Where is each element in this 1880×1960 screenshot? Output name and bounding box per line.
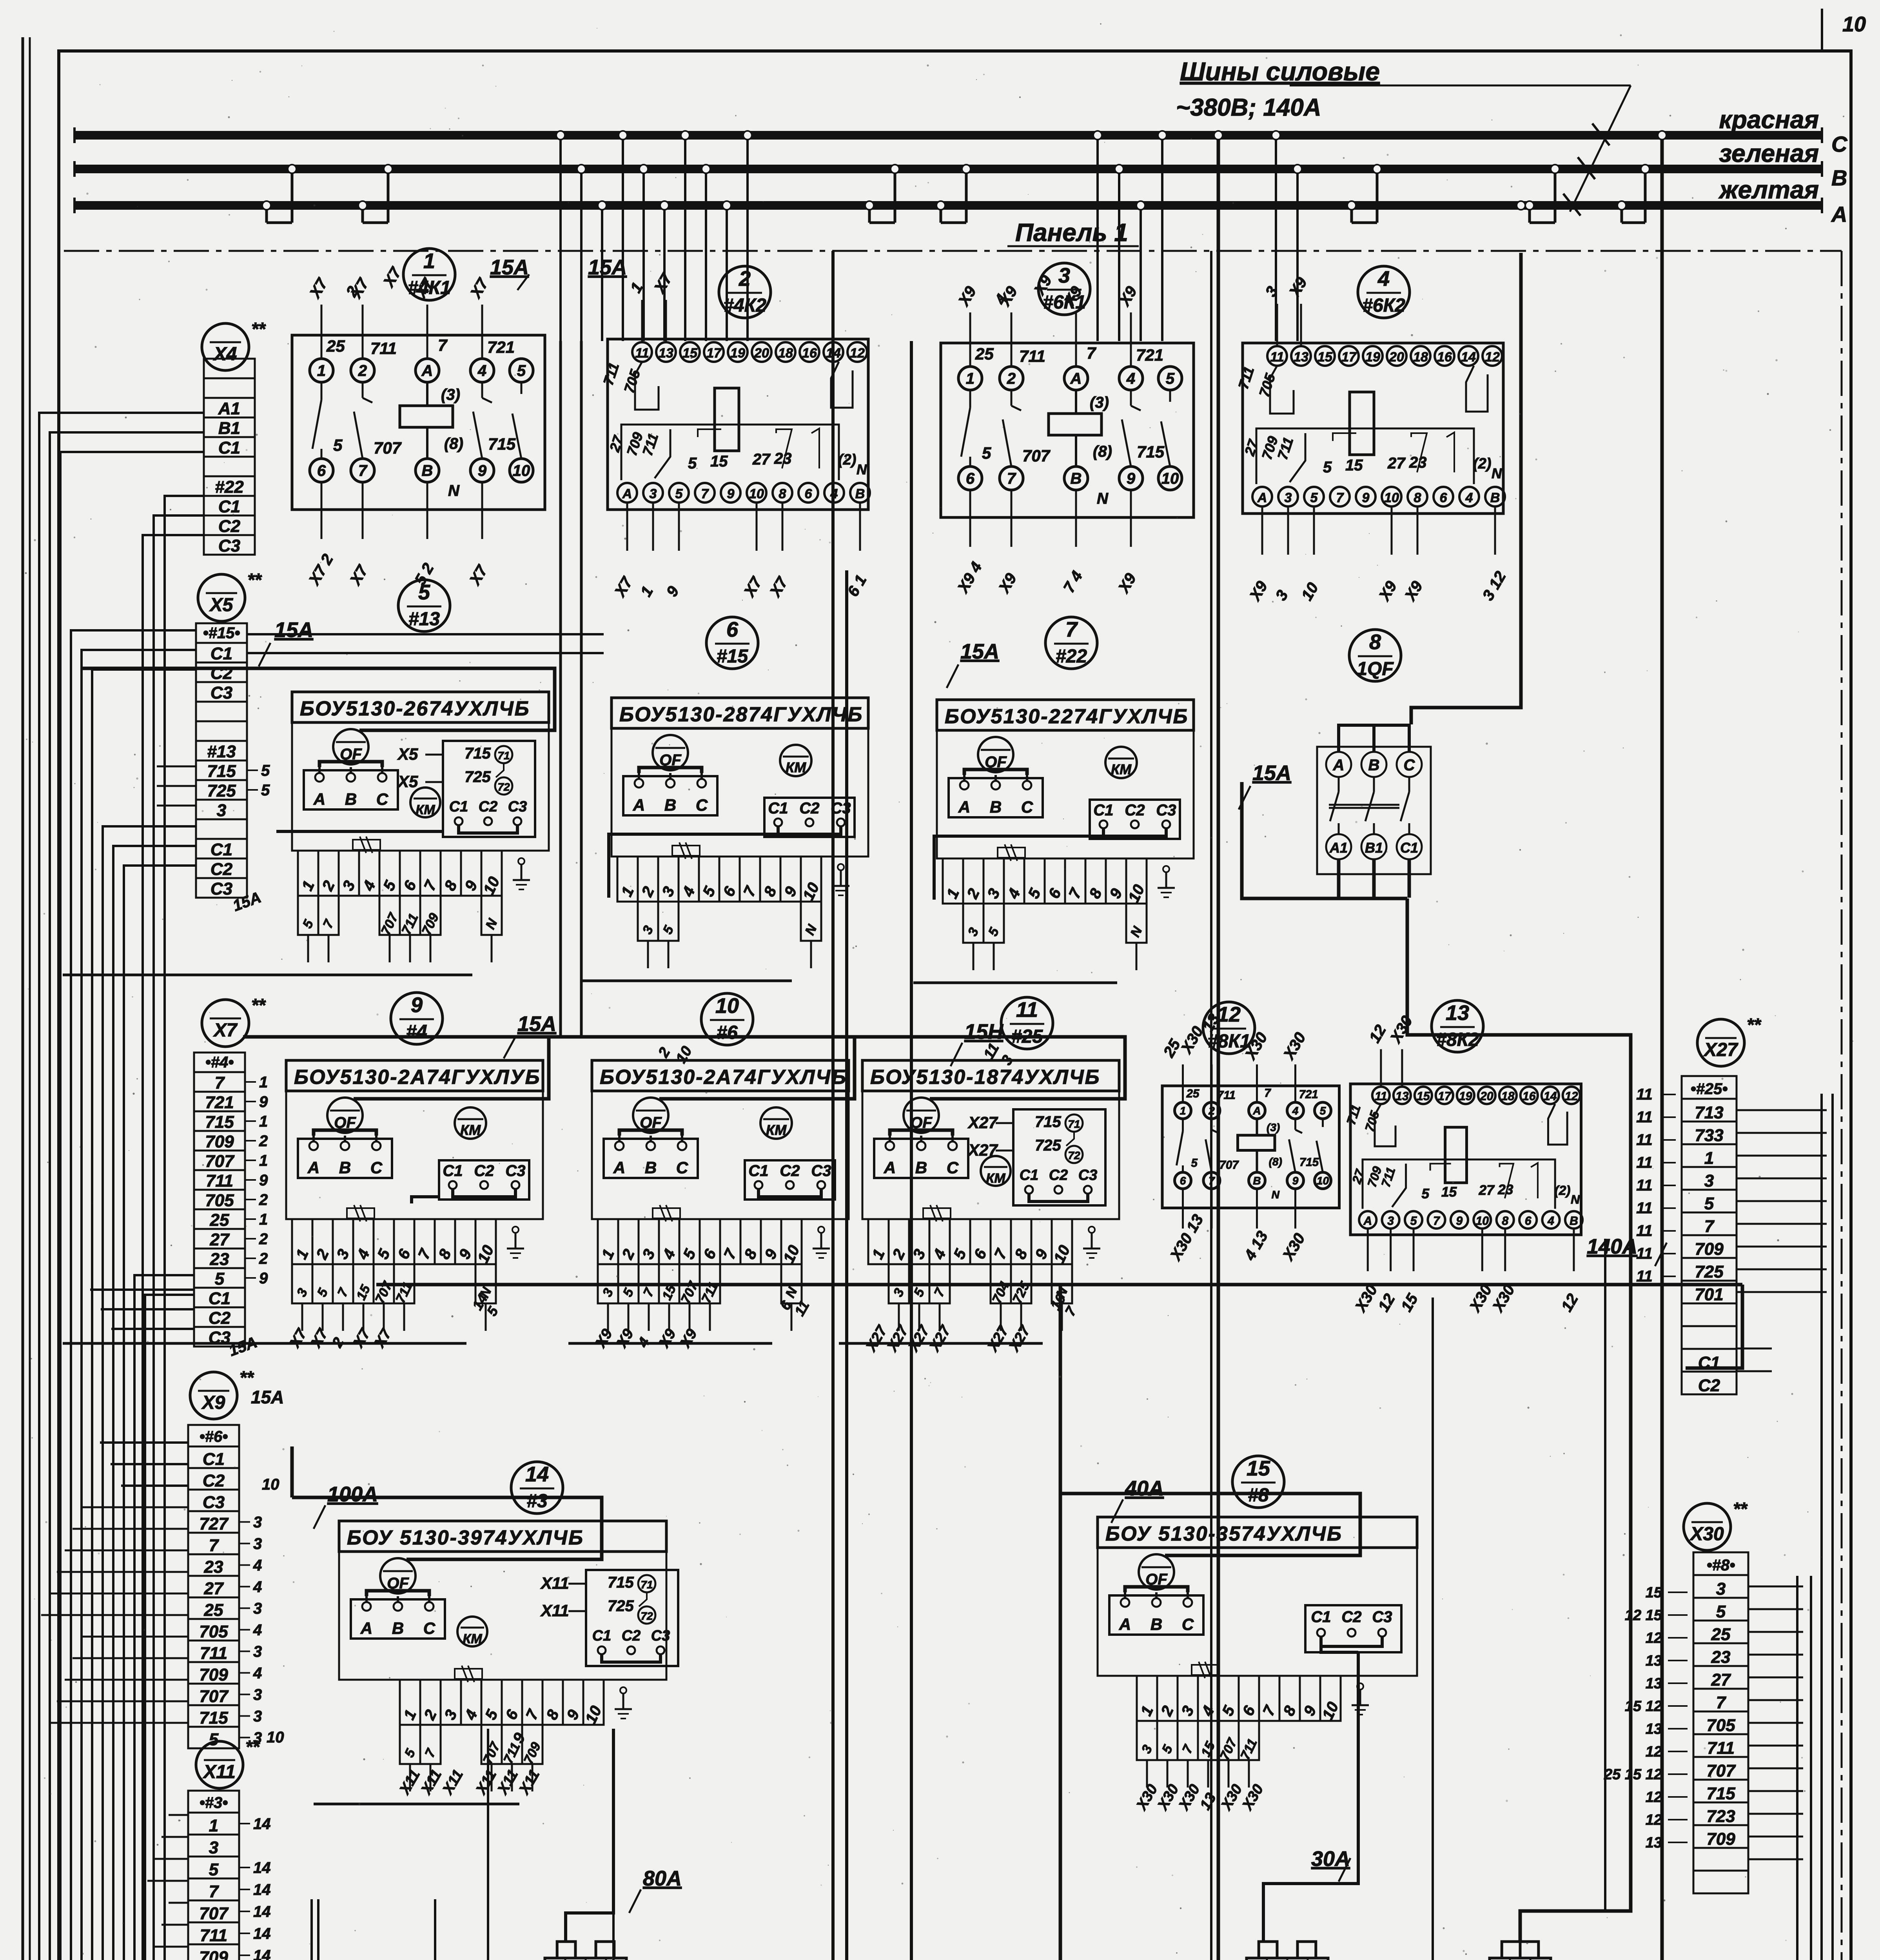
- terminal row 1-10: [943, 858, 963, 904]
- hanging terminal 7: [318, 896, 339, 935]
- wire lead top: [641, 300, 643, 342]
- pin 12: [847, 342, 867, 362]
- contactor KM: [410, 788, 440, 817]
- wire: [103, 826, 367, 1960]
- hanging terminal 3: [1137, 1721, 1157, 1760]
- node 3/#6К1 header circle: [1038, 263, 1090, 315]
- wire: [39, 413, 204, 1960]
- wire lead bottom: [969, 490, 971, 547]
- wire lead bottom: [1390, 1230, 1392, 1271]
- wire mid vertical 4095: [1604, 1239, 1606, 1911]
- pole В blade: [1373, 777, 1375, 792]
- wire lead bottom: [321, 482, 323, 539]
- contactor KM: [780, 745, 811, 776]
- wire: [1217, 140, 1220, 1960]
- blade d: [811, 428, 819, 468]
- wire X42 feed 80A: [566, 1729, 613, 1942]
- pin А: [617, 483, 637, 503]
- pin 17: [1339, 346, 1359, 366]
- wire X5 top feeds: [247, 633, 604, 635]
- hanging terminal 711: [700, 1264, 720, 1303]
- hanging terminal 707: [679, 1264, 700, 1303]
- wire: [310, 1899, 313, 1960]
- pin В: [1485, 487, 1505, 506]
- terminal row 1-10: [868, 1219, 889, 1264]
- pin 10: [1474, 1211, 1491, 1229]
- wire: [317, 1899, 319, 1960]
- wire lead top: [665, 300, 667, 342]
- terminal strip: [196, 623, 247, 643]
- pin 7: [1428, 1211, 1445, 1229]
- node 13/#8К2 header circle: [1432, 1000, 1483, 1052]
- wire C1C2C3 loop: [759, 1189, 821, 1197]
- demontage mark #: [353, 840, 380, 850]
- connector designator Х30: [1684, 1503, 1731, 1550]
- wire lead top: [1380, 1049, 1382, 1087]
- out wires bottom: [1337, 859, 1341, 898]
- ground symbol: [1165, 872, 1167, 888]
- wire: [613, 1729, 729, 1960]
- contact pin 4: [1119, 367, 1143, 390]
- wire QF to ABC: [619, 1130, 682, 1136]
- wire lead top: [1256, 1064, 1258, 1102]
- hanging terminal 707: [379, 896, 400, 935]
- wire: [92, 670, 315, 1960]
- wire C1C2C3 loop: [453, 1189, 515, 1197]
- wire lead bottom: [1075, 490, 1077, 547]
- contact pin 7: [351, 459, 374, 482]
- contact pin 1: [1175, 1102, 1191, 1119]
- connector body: [1247, 1958, 1328, 1960]
- ground symbol: [1359, 1690, 1361, 1705]
- terminal strip: [188, 1791, 239, 1813]
- pin В: [1565, 1211, 1582, 1229]
- contact pin А: [1064, 367, 1088, 390]
- wire QF to ABC: [314, 1130, 376, 1136]
- hanging terminal 7: [420, 1725, 441, 1764]
- wire: [435, 1899, 784, 1960]
- hanging terminal N: [801, 902, 821, 941]
- node 2/#4К2 header circle: [719, 266, 771, 318]
- unit БОУ5130-2А74ГУХЛУБ body: [286, 1060, 543, 1091]
- wire tap cluster block4: [1275, 135, 1277, 341]
- pin 17: [704, 342, 724, 362]
- pin 10: [747, 483, 766, 503]
- wire QF to ABC: [1125, 1587, 1188, 1592]
- relay block type B body: [1243, 343, 1503, 514]
- contact pin 5: [510, 359, 533, 382]
- hanging terminal 15: [1198, 1721, 1218, 1760]
- blade c: [776, 429, 792, 468]
- contactor KM: [760, 1107, 792, 1139]
- wire X9 C group: [100, 1441, 188, 1444]
- hanging terminal N: [481, 896, 502, 935]
- contact pin 4: [1287, 1102, 1304, 1119]
- pin 12: [1483, 346, 1502, 366]
- pin 3: [1382, 1211, 1399, 1229]
- wire lead bottom: [1391, 508, 1393, 555]
- contact pin 2: [351, 359, 374, 382]
- contact blade 1-6: [969, 390, 971, 408]
- contact 11 blade: [635, 362, 659, 410]
- wire lead bottom: [678, 504, 680, 551]
- wire lead bottom: [1261, 508, 1263, 555]
- hanging terminal 5: [909, 1264, 929, 1303]
- wire C loop: [459, 825, 517, 833]
- pin 14: [1459, 346, 1478, 366]
- trip bar: [1329, 804, 1399, 806]
- terminal box C1C2C3: [1090, 800, 1180, 839]
- wire: [1432, 1298, 1434, 1960]
- wire lead bottom: [1294, 1189, 1296, 1229]
- wire lead top: [321, 305, 323, 359]
- relay coil: [715, 388, 739, 451]
- wire lead bottom: [426, 482, 428, 539]
- contact blade 1-6: [1182, 1119, 1184, 1131]
- wire lead bottom: [1481, 1230, 1483, 1271]
- wire lead bottom: [652, 504, 654, 551]
- wire mid horizontal: [376, 1283, 1742, 1287]
- pin 20: [1478, 1087, 1495, 1104]
- contact pin 4: [470, 359, 494, 382]
- pin 17: [1436, 1087, 1453, 1104]
- contact blade 4-9: [1294, 1119, 1296, 1130]
- wire C1C2C3 loop: [778, 826, 841, 834]
- contact pin 6: [1175, 1172, 1191, 1189]
- wire lead top: [362, 305, 364, 359]
- wire: [845, 570, 848, 1960]
- pin 12: [1563, 1087, 1580, 1104]
- wire: [113, 846, 422, 1960]
- wire QF to ABC: [964, 769, 1027, 775]
- terminal row 1-10: [1137, 1676, 1157, 1721]
- wire feed14 drop: [290, 1446, 294, 1497]
- wire lead bottom: [756, 504, 758, 551]
- inner contact group frame: [1363, 1160, 1555, 1209]
- wire: [71, 630, 210, 1960]
- terminal strip: [188, 1425, 239, 1446]
- hanging terminal 5: [298, 896, 318, 935]
- unit БОУ5130-2874ГУХЛЧБ body: [612, 698, 868, 728]
- bus tap staple: [940, 205, 942, 223]
- contactor KM: [981, 1156, 1011, 1186]
- wire block8 out to X47: [1407, 898, 1631, 1942]
- bus tap staple: [265, 205, 268, 223]
- pin 4: [1459, 487, 1479, 506]
- wire lead bottom: [1504, 1230, 1506, 1271]
- aux contact box: [586, 1570, 678, 1666]
- unit БОУ 5130-3974УХЛЧБ body: [339, 1521, 666, 1552]
- connector designator Х5: [198, 574, 245, 621]
- ground symbol: [515, 1233, 517, 1249]
- wire X4 lower group: [165, 496, 204, 1960]
- pole А bottom: [1326, 834, 1351, 859]
- ground symbol: [840, 870, 842, 886]
- bus leader: [1290, 85, 1631, 87]
- hanging terminal 15: [353, 1264, 374, 1303]
- blade a: [655, 429, 670, 478]
- node 6/#15 header circle: [706, 617, 758, 669]
- hanging terminal 5: [984, 904, 1004, 943]
- wire feed: [463, 1037, 855, 1099]
- circuit breaker QF: [653, 735, 688, 770]
- pin 18: [1499, 1087, 1517, 1104]
- power bus А желтая: [74, 201, 1822, 210]
- demontage mark #: [998, 848, 1025, 858]
- wire block7 out: [934, 836, 1103, 900]
- pin 6: [798, 483, 818, 503]
- wire lead top: [481, 305, 483, 359]
- pin 11: [1372, 1087, 1390, 1104]
- wire lead bottom: [782, 504, 784, 551]
- pin 11: [1267, 346, 1287, 366]
- contact pin 6: [310, 459, 333, 482]
- contact pin 5: [1158, 367, 1182, 390]
- pin 9: [1451, 1211, 1468, 1229]
- contact pin А: [1249, 1102, 1265, 1119]
- demontage mark #: [653, 1208, 680, 1218]
- circuit breaker 1QF body: [1317, 747, 1431, 874]
- wire lead top: [1130, 312, 1132, 367]
- hanging terminal N: [1052, 1264, 1072, 1303]
- terminal box C1C2C3: [1305, 1605, 1401, 1652]
- contact pin 7: [1000, 466, 1023, 490]
- contact 11 blade: [1270, 366, 1294, 414]
- contact blade 2-7: [1211, 1119, 1213, 1130]
- ground symbol: [521, 864, 523, 880]
- wire lead top: [1182, 1064, 1184, 1102]
- connector designator Х27: [1697, 1019, 1744, 1066]
- contact pin 10: [510, 459, 533, 482]
- wire lead bottom: [626, 504, 628, 551]
- contact 12 blade: [1466, 366, 1488, 412]
- hanging terminal 711: [502, 1725, 522, 1764]
- wire block9 out: [412, 1197, 439, 1203]
- wire lead bottom: [362, 482, 364, 539]
- contact pin 6: [958, 466, 982, 490]
- pin 13: [1394, 1087, 1411, 1104]
- wire: [910, 341, 913, 1960]
- wire QF to ABC: [890, 1130, 953, 1136]
- wire feed: [1060, 1494, 1360, 1555]
- relay coil: [1049, 414, 1102, 435]
- circuit breaker QF: [904, 1098, 939, 1133]
- wire X9 737 group: [80, 1506, 188, 1508]
- pin 20: [1387, 346, 1406, 366]
- demontage mark #: [1192, 1665, 1219, 1675]
- wire tap cluster block3: [1096, 135, 1099, 341]
- wire QF to ABC: [367, 1591, 429, 1596]
- pin 5: [1304, 487, 1324, 506]
- terminal row 1-10: [617, 857, 638, 902]
- wire: [145, 1295, 576, 1960]
- wire: [1432, 1094, 1833, 1960]
- pole А top: [1326, 752, 1351, 777]
- terminal box ABC: [298, 1139, 392, 1178]
- wire: [82, 650, 263, 1960]
- wire lead bottom: [1313, 508, 1315, 555]
- circuit breaker QF: [327, 1098, 363, 1133]
- contact pin В: [416, 459, 439, 482]
- contactor KM: [457, 1617, 487, 1646]
- hanging terminal 711: [400, 896, 420, 935]
- hanging terminal 709: [522, 1725, 543, 1764]
- wire lead top: [1211, 1064, 1213, 1102]
- blade d: [1531, 1163, 1538, 1198]
- pin 11: [632, 342, 652, 362]
- relay coil: [1445, 1127, 1467, 1183]
- pole С bottom: [1397, 834, 1422, 859]
- pin 10: [1382, 487, 1401, 506]
- wire: [580, 980, 792, 982]
- pole В top: [1361, 752, 1386, 777]
- node 15/#8 header circle: [1232, 1456, 1284, 1508]
- power bus C красная: [74, 131, 1822, 140]
- blade c: [1500, 1164, 1513, 1199]
- node 8/1QF header circle: [1349, 630, 1401, 681]
- outer sheet border: [22, 37, 24, 1960]
- unit outline: [1098, 1548, 1417, 1676]
- wire: [63, 974, 472, 976]
- wire C1C2C3 loop: [1103, 828, 1166, 836]
- wire lead top: [1075, 312, 1077, 367]
- wire: [63, 1342, 466, 1345]
- wire lead bottom: [1367, 1230, 1369, 1271]
- unit outline: [339, 1552, 666, 1680]
- wire lead bottom: [1494, 508, 1496, 555]
- contact blade 1-6: [321, 382, 323, 400]
- hanging terminal 5: [312, 1264, 333, 1303]
- demontage mark #: [923, 1208, 951, 1218]
- relay block type B body: [1350, 1084, 1581, 1235]
- circuit breaker QF: [978, 737, 1013, 772]
- unit БОУ 5130-3574УХЛЧБ body: [1098, 1517, 1417, 1548]
- hanging terminal 5: [1157, 1721, 1178, 1760]
- circuit breaker QF: [380, 1558, 416, 1593]
- pin 8: [773, 483, 792, 503]
- pole С blade: [1408, 777, 1410, 792]
- wire feed: [292, 1497, 602, 1559]
- wire X27 C links: [1737, 1348, 1772, 1350]
- contact pin А: [416, 359, 439, 382]
- contact pin 9: [1119, 466, 1143, 490]
- bus tap staple: [1528, 205, 1531, 223]
- demontage mark #: [347, 1208, 374, 1218]
- pin 8: [1497, 1211, 1514, 1229]
- connector designator Х7: [202, 1000, 249, 1047]
- connector tabs: [557, 1942, 575, 1958]
- connector designator Х11: [196, 1741, 243, 1788]
- connector body: [1490, 1958, 1551, 1960]
- wire: [1059, 1285, 1062, 1960]
- wire QF to ABC: [639, 768, 702, 773]
- contact 12 blade: [831, 362, 853, 408]
- pin 15: [1415, 1087, 1432, 1104]
- hanging terminal N: [1126, 904, 1147, 943]
- contact pin 9: [1287, 1172, 1304, 1189]
- terminal strip: [1693, 1552, 1748, 1575]
- blade d: [1446, 432, 1454, 472]
- relay block type A body: [941, 343, 1194, 517]
- contact pin 10: [1158, 466, 1182, 490]
- contact pin 7: [1203, 1172, 1220, 1189]
- wire lead bottom: [1182, 1189, 1184, 1229]
- pin 15: [680, 342, 700, 362]
- wire top cluster joins: [559, 341, 562, 1037]
- terminal row 1-10: [598, 1219, 618, 1264]
- contact pin В: [1064, 466, 1088, 490]
- hanging terminal 7: [929, 1264, 950, 1303]
- hanging terminal 3: [889, 1264, 909, 1303]
- wire lead bottom: [1573, 1230, 1575, 1271]
- wire X46 feed 30A: [1263, 1652, 1358, 1942]
- wire lead top: [426, 305, 428, 359]
- connector tabs: [1502, 1942, 1520, 1958]
- node 7/#22 header circle: [1045, 617, 1097, 669]
- blade b: [1430, 1164, 1451, 1171]
- wire block8 feed: [1242, 782, 1407, 898]
- hanging terminal 704: [991, 1264, 1011, 1303]
- node 5/#13 header circle: [398, 580, 450, 632]
- wire: [839, 1342, 1043, 1345]
- contact blade 5-10: [521, 382, 523, 394]
- wire tap cluster block1-2: [559, 135, 562, 341]
- pin 13: [656, 342, 676, 362]
- hanging terminal 5: [618, 1264, 639, 1303]
- hanging terminal 707: [481, 1725, 502, 1764]
- wire C loop: [602, 1654, 661, 1662]
- wire X5 mid rows: [157, 766, 196, 768]
- bus tap staple: [361, 205, 364, 223]
- terminal strip: [204, 359, 255, 378]
- contactor KM: [455, 1107, 486, 1139]
- contact pin 5: [1315, 1102, 1331, 1119]
- pin 20: [752, 342, 771, 362]
- wire C1C2C3 loop: [1321, 1637, 1382, 1646]
- connector body: [545, 1958, 626, 1960]
- hanging terminal 725: [1011, 1264, 1031, 1303]
- contact blade 2-7: [1011, 390, 1013, 406]
- circuit breaker QF: [633, 1098, 668, 1133]
- contact pin 1: [958, 367, 982, 390]
- connector designator Х9: [190, 1372, 237, 1419]
- pin 19: [1363, 346, 1383, 366]
- wire: [1484, 1576, 1811, 1960]
- node 1/#4К1 header circle: [403, 249, 455, 300]
- wire block5 out: [276, 830, 443, 833]
- feed wires top: [1339, 725, 1409, 752]
- wire lead top: [969, 312, 971, 367]
- ground symbol: [1091, 1233, 1093, 1249]
- wire: [1325, 1576, 1797, 1960]
- node 11/#25 header circle: [1001, 997, 1053, 1049]
- wire: [50, 432, 204, 1960]
- pin В: [850, 483, 870, 503]
- wire: [831, 251, 835, 1960]
- contact blade 4-9: [481, 382, 483, 398]
- terminal box ABC: [949, 778, 1043, 817]
- pin 9: [1356, 487, 1376, 506]
- pin 4: [824, 483, 844, 503]
- terminal box ABC: [874, 1139, 968, 1178]
- terminal row 1-10: [298, 851, 318, 896]
- pin 16: [800, 342, 819, 362]
- pin 5: [1405, 1211, 1422, 1229]
- blade a: [1392, 1164, 1406, 1207]
- contact blade 4-9: [1130, 390, 1132, 406]
- aux contact box: [443, 741, 535, 837]
- contact pin 2: [1203, 1102, 1220, 1119]
